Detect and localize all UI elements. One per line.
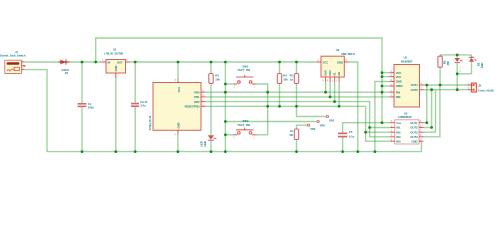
wire 5V from U1 OUT to U2 VCC xyxy=(130,61,317,63)
wire U3 VREF branch xyxy=(382,85,390,87)
wire MCU GND drop xyxy=(177,135,179,152)
wire ground bus xyxy=(47,151,422,153)
svg-text:D2: D2 xyxy=(476,62,480,66)
svg-text:360: 360 xyxy=(446,61,450,66)
svg-text:Barrel_Jack_Switch: Barrel_Jack_Switch xyxy=(0,54,25,58)
svg-text:VR3: VR3 xyxy=(320,123,326,127)
wire C5 bottom to bus xyxy=(342,137,344,152)
svg-text:IN1: IN1 xyxy=(396,126,401,130)
LED D4 xyxy=(455,58,463,73)
svg-text:1k: 1k xyxy=(290,77,293,81)
wire U3 VCC branch 1 xyxy=(382,72,390,74)
svg-text:R3: R3 xyxy=(215,74,219,78)
resistor R3 xyxy=(209,74,220,84)
wire D2 bottom lead xyxy=(471,62,473,74)
node VR3 xyxy=(317,120,325,127)
switch SW2 xyxy=(234,119,257,139)
svg-text:3.3u: 3.3u xyxy=(140,104,146,108)
connector J2 xyxy=(467,83,494,92)
svg-text:OUT2: OUT2 xyxy=(410,126,418,130)
wire U5 OUT1 riser xyxy=(424,85,427,123)
svg-text:LED: LED xyxy=(203,141,207,146)
wire row PB1 to U3 RIN xyxy=(206,96,390,98)
svg-text:GND: GND xyxy=(114,65,118,71)
wire R4 top lead xyxy=(279,62,281,74)
svg-text:1: 1 xyxy=(254,137,256,139)
svg-text:IN4: IN4 xyxy=(396,139,401,143)
svg-text:1: 1 xyxy=(460,68,462,70)
resistor R5 xyxy=(438,56,450,67)
svg-text:IN2: IN2 xyxy=(396,130,401,134)
svg-text:Vss: Vss xyxy=(396,121,401,125)
svg-text:OUT4: OUT4 xyxy=(410,135,418,139)
svg-text:J1: J1 xyxy=(15,50,18,54)
node VR1 xyxy=(326,115,334,122)
svg-text:RESET/PB3: RESET/PB3 xyxy=(185,105,200,109)
svg-text:2: 2 xyxy=(234,137,236,139)
resistor R1 xyxy=(290,74,299,84)
svg-text:R5: R5 xyxy=(442,60,446,64)
wire U5 IN2 branch xyxy=(366,131,390,133)
wire U5 OUT2 riser xyxy=(424,90,432,128)
svg-text:OU0: OU0 xyxy=(324,70,328,76)
wire LED pair bottom link xyxy=(457,73,471,75)
wire U3 OUT2 to J2 pin2 xyxy=(424,89,467,91)
svg-text:3: 3 xyxy=(332,81,334,83)
svg-text:OUT3: OUT3 xyxy=(410,130,418,134)
wire U5 IN1 branch xyxy=(370,127,390,129)
wire VR2 stub to R2 top xyxy=(297,125,308,129)
svg-text:8: 8 xyxy=(175,80,177,82)
svg-text:R1: R1 xyxy=(290,74,294,78)
svg-text:2: 2 xyxy=(460,71,462,73)
svg-text:GND: GND xyxy=(176,122,180,128)
svg-text:TACT_SW: TACT_SW xyxy=(237,123,250,127)
wire U2 pin bottom 1 xyxy=(325,82,327,92)
hall sensor U2 xyxy=(317,48,356,83)
node VR2 xyxy=(308,124,316,131)
svg-text:1: 1 xyxy=(254,87,256,89)
wire U5 OUT4 riser xyxy=(424,85,440,137)
svg-text:VR2: VR2 xyxy=(310,127,316,131)
svg-text:GND: GND xyxy=(396,80,402,84)
wire U5 GND to bus end xyxy=(421,141,423,151)
svg-text:D1: D1 xyxy=(65,71,69,75)
wire R5 bottom to OUT1 wire xyxy=(439,67,441,85)
svg-text:SW1: SW1 xyxy=(243,64,249,68)
wire U1 GND to bus xyxy=(115,77,117,152)
wire indicator top rail xyxy=(440,54,471,56)
svg-text:10k: 10k xyxy=(283,77,288,81)
wire R1 top lead xyxy=(296,62,298,74)
wire VR3 stub from SW column xyxy=(225,121,317,123)
svg-text:L78L05_SOT89: L78L05_SOT89 xyxy=(104,52,124,56)
MCU U4 ATtiny13 xyxy=(148,78,206,136)
LED D3 xyxy=(200,135,217,146)
wire U2 pin bottom 2 xyxy=(329,82,331,97)
capacitor C1 xyxy=(78,102,95,110)
svg-text:U1: U1 xyxy=(113,48,117,52)
wire R5 top lead xyxy=(439,55,441,56)
svg-text:1: 1 xyxy=(336,81,338,83)
wire U5 OUT3 riser xyxy=(424,90,436,133)
wire LED cathode to bus xyxy=(210,141,212,152)
svg-text:FIN: FIN xyxy=(396,90,400,94)
svg-text:VCC: VCC xyxy=(396,71,402,75)
svg-text:100u: 100u xyxy=(88,106,94,110)
svg-text:PB1: PB1 xyxy=(194,95,200,99)
driver array U5 xyxy=(390,112,424,144)
barrel jack J1 xyxy=(0,50,25,73)
svg-text:2: 2 xyxy=(234,87,236,89)
wire U3 OUT1 to J2 pin1 xyxy=(424,84,467,86)
wire R3 to LED anode xyxy=(210,84,212,136)
wire R3 top lead xyxy=(210,62,212,74)
svg-text:4: 4 xyxy=(174,135,176,137)
wire U3 VCC branch 2 xyxy=(382,76,390,78)
svg-text:PB0: PB0 xyxy=(194,90,200,94)
svg-text:VCC: VCC xyxy=(323,60,329,64)
wire C1 upper lead xyxy=(81,62,83,103)
svg-text:GND: GND xyxy=(412,139,418,143)
wire R2 bottom to bus xyxy=(296,140,298,152)
svg-text:VREF: VREF xyxy=(396,84,404,88)
wire top raw rail xyxy=(96,38,382,123)
svg-text:U2: U2 xyxy=(336,48,340,52)
capacitor C5 xyxy=(338,130,355,139)
capacitor C2 xyxy=(131,100,148,108)
wire LED1 bottom and cross link xyxy=(456,64,458,90)
wire row PB0 to U3 FIN xyxy=(206,91,390,93)
wire U2 pin bottom 4 xyxy=(338,82,340,106)
svg-text:ATtiny13-TL: ATtiny13-TL xyxy=(148,115,152,131)
switch SW1 xyxy=(234,64,257,88)
svg-text:PB2: PB2 xyxy=(194,100,200,104)
wire C2 lower lead xyxy=(134,107,136,152)
svg-text:U3: U3 xyxy=(404,56,408,60)
svg-text:OUT1: OUT1 xyxy=(410,121,418,125)
svg-text:R4: R4 xyxy=(283,74,287,78)
wire R4 bottom to row4 xyxy=(279,84,281,107)
svg-text:GND: GND xyxy=(337,60,343,64)
wire C5 top to U5 Vss xyxy=(343,123,390,133)
svg-text:A6B-JEP-8: A6B-JEP-8 xyxy=(341,52,355,56)
wire VIN from J1 pin1 to U1 IN xyxy=(24,61,102,63)
svg-text:OUT1: OUT1 xyxy=(411,83,419,87)
svg-text:SW2: SW2 xyxy=(243,119,249,123)
svg-text:10k: 10k xyxy=(215,77,220,81)
svg-text:BA6285F: BA6285F xyxy=(401,59,413,63)
regulator U1 xyxy=(102,48,131,78)
svg-text:C1: C1 xyxy=(88,102,92,106)
svg-text:OU1: OU1 xyxy=(328,70,332,76)
motor driver U3 xyxy=(390,56,425,107)
LED D2 reversed xyxy=(469,57,484,68)
svg-text:X1: X1 xyxy=(333,72,337,76)
wire SW2 left lead xyxy=(225,134,233,136)
svg-text:J2: J2 xyxy=(478,83,481,87)
svg-text:VR1: VR1 xyxy=(329,118,335,122)
svg-text:C5: C5 xyxy=(349,130,353,134)
wire J1 pin3 to ground bus xyxy=(24,70,47,152)
svg-text:1k: 1k xyxy=(290,129,293,133)
svg-text:0.1u: 0.1u xyxy=(349,135,355,139)
svg-text:U5: U5 xyxy=(404,112,408,116)
wire row PB3 to U5 IN2/IN4 xyxy=(206,106,391,141)
svg-text:Conn_01x02: Conn_01x02 xyxy=(478,88,494,92)
svg-text:2: 2 xyxy=(117,76,119,78)
svg-text:4: 4 xyxy=(327,81,329,83)
svg-text:OUT2: OUT2 xyxy=(411,88,419,92)
svg-text:R2: R2 xyxy=(290,133,294,137)
wire R1 bottom through row4 to VR1 stub xyxy=(297,84,327,117)
svg-text:VCC: VCC xyxy=(396,75,402,79)
wire U2 pin bottom 3 xyxy=(334,82,336,102)
svg-text:C2 47: C2 47 xyxy=(140,100,148,104)
wire D2 top lead xyxy=(471,55,473,58)
wire SW riser column xyxy=(224,62,226,152)
wire MCU VCC riser xyxy=(177,62,179,78)
svg-text:RIN: RIN xyxy=(396,95,401,99)
wire C1 lower lead xyxy=(81,108,83,152)
wire LED1 top lead xyxy=(456,55,458,58)
wire U2 GND down to bus xyxy=(349,62,358,152)
wire U3 GND to bus xyxy=(375,82,390,152)
diode D1 xyxy=(59,59,70,75)
wire C2 upper lead xyxy=(134,62,136,103)
wire SW1 left lead xyxy=(225,83,233,85)
resistor R4 xyxy=(277,74,288,84)
svg-text:VCC: VCC xyxy=(177,87,181,93)
svg-text:LED: LED xyxy=(480,63,484,68)
svg-text:TACT_SW: TACT_SW xyxy=(237,68,250,72)
wire SW1 right to row4 to SW2 right xyxy=(257,84,268,135)
svg-text:LNB64B4C: LNB64B4C xyxy=(398,115,412,119)
svg-text:IN: IN xyxy=(108,60,111,64)
svg-text:5: 5 xyxy=(323,81,325,83)
resistor R2 xyxy=(290,129,299,140)
svg-text:IN3: IN3 xyxy=(396,135,401,139)
svg-text:GN: GN xyxy=(337,72,341,76)
svg-text:OUT: OUT xyxy=(117,60,123,64)
wire row PB2 to U5 IN1/IN3 xyxy=(206,102,391,137)
